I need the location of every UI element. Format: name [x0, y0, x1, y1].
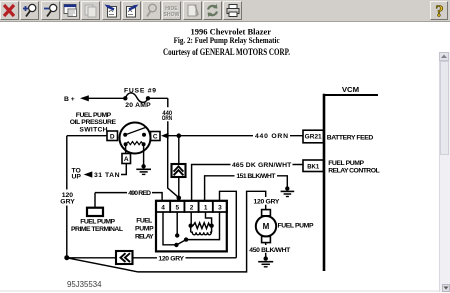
- svg-text:RELAY: RELAY: [135, 233, 154, 240]
- svg-text:95J35534: 95J35534: [67, 280, 102, 289]
- svg-text:PUMP: PUMP: [135, 225, 154, 232]
- svg-text:GRY: GRY: [60, 199, 75, 206]
- svg-text:Courtesy of GENERAL MOTORS COR: Courtesy of GENERAL MOTORS CORP.: [163, 47, 290, 57]
- svg-text:PRIME TERMINAL: PRIME TERMINAL: [71, 226, 123, 233]
- svg-text:3: 3: [218, 204, 222, 211]
- svg-text:440 ORN: 440 ORN: [255, 133, 288, 140]
- svg-text:A: A: [124, 156, 129, 163]
- svg-text:SWITCH: SWITCH: [79, 127, 107, 134]
- svg-text:5: 5: [175, 204, 179, 211]
- svg-text:31 TAN: 31 TAN: [94, 172, 120, 179]
- svg-text:1: 1: [204, 204, 208, 211]
- svg-text:B +: B +: [64, 96, 75, 103]
- svg-text:VCM: VCM: [342, 85, 359, 94]
- svg-text:D: D: [110, 133, 115, 140]
- svg-text:465 DK GRN/WHT: 465 DK GRN/WHT: [232, 162, 292, 169]
- svg-text:2: 2: [190, 204, 194, 211]
- svg-text:FUEL PUMP: FUEL PUMP: [80, 219, 115, 226]
- svg-text:FUEL PUMP: FUEL PUMP: [76, 112, 112, 119]
- svg-text:M: M: [263, 222, 270, 231]
- svg-text:FUEL: FUEL: [136, 217, 152, 224]
- svg-text:FUSE #9: FUSE #9: [124, 88, 156, 95]
- svg-text:ORN: ORN: [162, 115, 173, 122]
- svg-text:OIL PRESSURE: OIL PRESSURE: [70, 119, 117, 126]
- svg-text:RELAY CONTROL: RELAY CONTROL: [328, 167, 379, 174]
- svg-text:4: 4: [161, 204, 165, 211]
- svg-text:C: C: [153, 134, 158, 141]
- svg-text:120 GRY: 120 GRY: [254, 198, 280, 205]
- svg-text:Fig. 2: Fuel Pump Relay Schema: Fig. 2: Fuel Pump Relay Schematic: [174, 35, 280, 45]
- svg-text:FUEL PUMP: FUEL PUMP: [278, 222, 314, 229]
- svg-text:120 GRY: 120 GRY: [158, 256, 184, 263]
- svg-text:GR21: GR21: [305, 135, 323, 141]
- svg-text:FUEL PUMP: FUEL PUMP: [328, 160, 364, 167]
- svg-text:20 AMP: 20 AMP: [125, 102, 151, 109]
- svg-text:450 BLK/WHT: 450 BLK/WHT: [249, 247, 291, 254]
- svg-text:BK1: BK1: [307, 164, 320, 170]
- svg-text:UP: UP: [72, 174, 82, 181]
- svg-text:151 BLK/WHT: 151 BLK/WHT: [236, 173, 276, 180]
- svg-text:490 RED: 490 RED: [128, 190, 151, 197]
- svg-text:BATTERY FEED: BATTERY FEED: [327, 134, 374, 141]
